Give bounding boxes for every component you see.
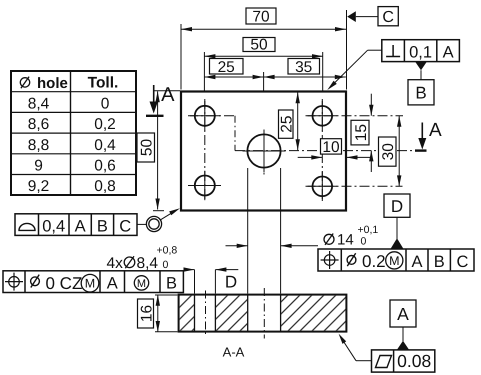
dimension 50 vertical — [137, 91, 160, 209]
section centerline small hole — [205, 291, 207, 336]
4x dia 8,4 text — [107, 245, 178, 273]
cutting arrow right — [418, 123, 426, 150]
datum C box — [378, 7, 398, 26]
table row 8,8 / 0,4 — [28, 137, 116, 154]
svg-text:0: 0 — [361, 236, 367, 248]
svg-text:30: 30 — [380, 143, 397, 161]
centerline vertical center hole — [263, 131, 265, 175]
position symbol right — [321, 251, 339, 269]
dimension 16 — [138, 295, 178, 332]
flatness symbol parallelogram — [376, 356, 392, 368]
svg-text:B: B — [415, 84, 426, 103]
svg-text:M: M — [389, 254, 399, 268]
dimension 4x dia 8,4 — [184, 267, 239, 293]
section centerline center hole — [263, 288, 265, 339]
profile leader arrow to plate corner — [161, 208, 181, 220]
svg-text:A-A: A-A — [223, 345, 245, 360]
profile FCF leader — [137, 223, 146, 225]
cutting arrow left — [150, 85, 158, 114]
datum A box — [390, 300, 416, 327]
position FCF right tolerance dia 0.2 M — [347, 252, 403, 271]
dimension 50 top — [204, 37, 323, 59]
section hatch block 3 — [281, 296, 346, 331]
svg-text:8,4: 8,4 — [137, 255, 159, 272]
perpendicularity FCF texts — [409, 44, 453, 62]
svg-text:A: A — [411, 253, 422, 271]
svg-text:70: 70 — [252, 9, 270, 26]
svg-text:4x: 4x — [107, 255, 124, 272]
datum B box — [408, 80, 434, 105]
svg-text:C: C — [456, 253, 468, 271]
perpendicularity FCF frame — [382, 40, 460, 62]
svg-text:A: A — [161, 84, 175, 106]
svg-text:0,6: 0,6 — [94, 158, 116, 175]
extension line x=322.7 top holes — [322, 52, 324, 91]
dimension 35 top — [264, 59, 346, 80]
svg-text:hole: hole — [37, 75, 68, 92]
svg-text:B: B — [166, 275, 177, 293]
center hole dia 14 — [247, 134, 280, 167]
svg-text:A: A — [429, 120, 442, 141]
dimension 10 — [298, 139, 372, 160]
section view outline — [179, 295, 347, 332]
position FCF tolerance dia 0 CZ M — [31, 274, 99, 293]
hole center cross marks — [190, 101, 337, 201]
svg-text:8,6: 8,6 — [28, 116, 50, 133]
svg-text:8,8: 8,8 — [28, 137, 50, 154]
section hole wall lines — [195, 295, 281, 332]
position FCF modifier M cell — [134, 276, 148, 290]
extension line y=210.7 left of plate corner — [153, 210, 164, 212]
centerline vertical left holes — [204, 99, 206, 202]
svg-text:0: 0 — [101, 95, 110, 112]
datum D triangle — [391, 238, 404, 249]
dimension 70 — [181, 8, 346, 31]
position FCF bottom-left frame — [3, 271, 183, 293]
datum A triangle — [397, 341, 410, 351]
svg-text:0,1: 0,1 — [409, 44, 432, 62]
dimension 30 — [379, 116, 402, 187]
profile FCF frame 0,4 A B C — [15, 214, 137, 236]
svg-text:B: B — [434, 253, 445, 271]
svg-text:15: 15 — [353, 124, 370, 141]
svg-text:A: A — [75, 217, 86, 235]
dimension 25 vertical — [279, 92, 300, 150]
cutting line A-A left thick end — [146, 115, 164, 117]
centerline vertical right holes — [321, 99, 323, 202]
cutting line A-A jog vertical — [234, 116, 236, 151]
extension line y=90.8 left of plate corner — [154, 90, 180, 92]
table row 8,6 / 0,2 — [28, 116, 116, 133]
cutting line A-A through center hole to right — [235, 150, 415, 152]
datum B stem — [420, 70, 422, 80]
datum D box — [384, 194, 410, 217]
all around double circle — [146, 216, 161, 231]
cutting line A-A right thick end — [415, 149, 427, 151]
svg-text:+0,8: +0,8 — [157, 245, 178, 257]
svg-text:10: 10 — [322, 139, 340, 156]
tolerance table frame — [11, 71, 136, 195]
svg-text:0.2: 0.2 — [362, 252, 386, 271]
extension line x=204.4 top holes — [203, 52, 205, 91]
svg-text:0,4: 0,4 — [94, 137, 116, 154]
plate outline — [181, 92, 346, 211]
svg-text:D: D — [391, 197, 403, 216]
svg-text:0,8: 0,8 — [94, 178, 116, 195]
section hatch block 2 — [216, 296, 247, 331]
dia 14 text — [324, 224, 378, 249]
datum C leader — [356, 16, 378, 18]
flatness FCF frame — [372, 350, 435, 372]
svg-text:50: 50 — [139, 139, 156, 157]
svg-text:16: 16 — [138, 305, 155, 322]
position FCF right frame — [318, 249, 474, 271]
position symbol — [5, 273, 23, 291]
svg-text:25: 25 — [279, 115, 296, 132]
svg-text:0,4: 0,4 — [42, 217, 65, 235]
datum D stem — [396, 217, 398, 239]
table row 8,4 / 0 — [28, 95, 110, 112]
table header diameter symbol — [20, 77, 29, 89]
hole top-left 8,4 — [195, 106, 215, 126]
position FCF right datums A B C — [411, 253, 468, 271]
profile FCF texts — [42, 217, 131, 235]
svg-text:A: A — [443, 44, 454, 62]
svg-text:D: D — [225, 272, 237, 291]
datum C triangle — [347, 11, 356, 22]
svg-text:0 CZ: 0 CZ — [46, 274, 83, 293]
dia 14 dimension — [226, 168, 319, 294]
svg-text:14: 14 — [337, 232, 354, 249]
profile of surface symbol — [19, 223, 35, 230]
extension line right x=346.5 — [346, 10, 348, 90]
svg-text:M: M — [137, 278, 146, 290]
svg-text:A: A — [397, 304, 409, 324]
svg-text:C: C — [382, 9, 394, 26]
section hatch block 1 — [180, 296, 194, 331]
svg-text:35: 35 — [295, 59, 312, 76]
svg-text:Toll.: Toll. — [88, 75, 119, 92]
dimension 15 — [351, 94, 374, 172]
svg-text:9: 9 — [34, 158, 43, 175]
svg-text:0.08: 0.08 — [397, 351, 431, 371]
hole top-right 8,4 — [313, 106, 333, 126]
svg-text:B: B — [97, 217, 108, 235]
svg-text:C: C — [119, 217, 131, 235]
table row 9 / 0,6 — [34, 158, 116, 175]
cutting line A-A through top-left hole — [188, 115, 235, 117]
dimension 25 top — [204, 59, 263, 80]
perpendicularity leader — [327, 50, 382, 90]
centerline horizontal bottom-left hole — [188, 185, 222, 187]
flatness leader — [339, 334, 372, 361]
svg-text:M: M — [85, 277, 95, 291]
extension line x=263.6 center — [263, 72, 265, 91]
perpendicularity symbol — [386, 45, 400, 57]
hole bottom-left 8,4 — [195, 176, 215, 196]
svg-text:+0,1: +0,1 — [358, 224, 379, 236]
centerline horizontal top-right hole extended right — [306, 115, 404, 117]
svg-text:50: 50 — [250, 37, 268, 54]
table row 9,2 / 0,8 — [28, 178, 116, 195]
svg-text:8,4: 8,4 — [28, 95, 50, 112]
svg-text:0,2: 0,2 — [94, 116, 116, 133]
svg-text:A: A — [107, 275, 118, 293]
svg-text:0: 0 — [163, 259, 169, 271]
datum A stem — [402, 327, 404, 341]
hole bottom-right 8,4 — [313, 177, 333, 197]
extension line left x=181 — [180, 24, 182, 90]
svg-text:25: 25 — [218, 59, 235, 76]
svg-text:9,2: 9,2 — [28, 178, 50, 195]
centerline horizontal bottom-right hole extended right — [306, 185, 403, 187]
datum B triangle — [415, 62, 427, 70]
